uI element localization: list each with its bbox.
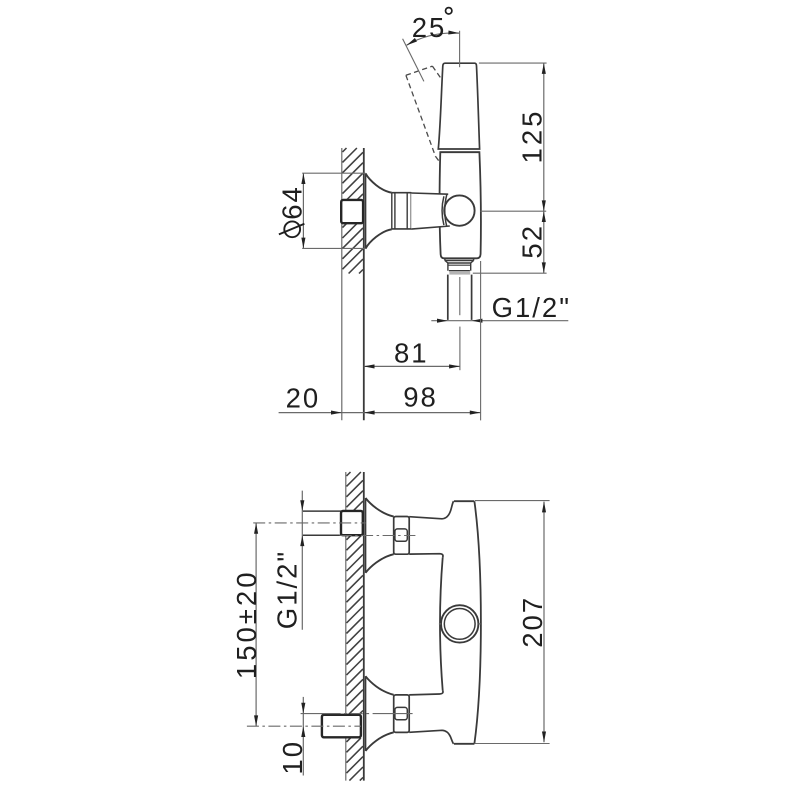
- upper connector cone: [409, 501, 453, 519]
- ext line handle top (125): [479, 62, 547, 64]
- lower supply pipe centre line: [247, 725, 361, 727]
- arrows 98: [364, 411, 375, 415]
- arrows dia 64: [301, 173, 305, 184]
- dimension line 10: [302, 697, 304, 776]
- svg-text:150±20: 150±20: [231, 570, 262, 680]
- arrows 125: [542, 63, 546, 74]
- outlet thread ring (grey): [449, 271, 470, 275]
- svg-text:98: 98: [403, 382, 438, 413]
- svg-text:G1/2": G1/2": [272, 550, 303, 629]
- escutcheon trumpet upper curve: [366, 173, 392, 192]
- escutcheon base disc: [365, 173, 367, 248]
- svg-text:125: 125: [517, 109, 548, 164]
- angle arc arrowheads: [407, 38, 417, 45]
- svg-text:64: 64: [277, 185, 308, 220]
- upper escutcheon base disc: [365, 498, 367, 573]
- label 207: [517, 596, 548, 648]
- svg-text:52: 52: [517, 224, 548, 259]
- svg-text:10: 10: [277, 740, 308, 775]
- ext line body bottom (207): [475, 743, 550, 745]
- svg-text:25: 25: [412, 12, 447, 43]
- outlet shoulder: [444, 258, 446, 260]
- handle tilted 25 deg (dashed): [406, 66, 433, 75]
- inlet nut behind wall (top figure): [341, 200, 363, 223]
- handle knob circle inner: [444, 609, 475, 640]
- ext line valve centre (125/52): [480, 210, 546, 212]
- lower inlet wall nut: [322, 715, 361, 738]
- upper inlet centre line: [340, 535, 416, 537]
- arrows 20: [331, 411, 342, 415]
- body bottom edge (front view): [454, 743, 475, 745]
- ext lines dia 64: [302, 172, 365, 174]
- valve cap circle (side view): [444, 195, 474, 225]
- connector cone to valve body: [411, 193, 450, 229]
- arrows 10: [301, 703, 305, 714]
- handle (upright, solid): [438, 63, 479, 149]
- angle extension line tilted: [403, 39, 424, 82]
- dimension line 81: [364, 365, 460, 367]
- wall section (top view) left edge: [341, 148, 343, 420]
- ext line body right (98): [480, 261, 482, 420]
- upper inlet supply pipe: [303, 510, 341, 512]
- arrows 52: [542, 211, 546, 222]
- arrows 207: [542, 502, 546, 513]
- label 10: [277, 740, 308, 775]
- arrows G1/2 (bottom figure): [300, 500, 304, 511]
- outlet pipe centre line: [459, 277, 461, 315]
- dimension line 207: [543, 502, 545, 743]
- wall hatching (top figure): [343, 148, 347, 152]
- dimension line G1/2 (top figure): [431, 320, 568, 322]
- wall hatching (bottom figure): [347, 472, 351, 476]
- mixer body (side view): [440, 152, 481, 258]
- label 150+-20: [231, 570, 262, 680]
- arrows G1/2 (top figure): [437, 319, 448, 323]
- upper supply pipe centre line: [253, 522, 365, 524]
- outlet nut: [445, 261, 474, 264]
- body left edge (front view): [440, 557, 443, 690]
- svg-text:207: 207: [517, 596, 548, 648]
- arrows 150+-20: [254, 523, 258, 534]
- svg-text:81: 81: [394, 338, 429, 369]
- lower inlet nut (front): [394, 695, 410, 733]
- arrows 81: [364, 364, 375, 368]
- dimension line 125/52: [543, 63, 545, 273]
- label dia 64: [277, 185, 308, 237]
- ext line outlet (52): [473, 272, 547, 274]
- body right edge (front view): [474, 501, 481, 744]
- label G1/2 (bottom figure): [272, 550, 303, 629]
- svg-text:G1/2": G1/2": [492, 292, 571, 323]
- dimension line 20/98: [279, 412, 481, 414]
- degree symbol: [446, 8, 452, 14]
- escutcheon collar: [392, 193, 411, 229]
- dimension line G1/2 (bottom figure): [301, 491, 303, 630]
- wall section (top view) face line: [363, 148, 365, 420]
- dimension line dia 64: [302, 173, 304, 248]
- lower inlet centre line: [301, 713, 416, 715]
- ext line outlet centre (81): [459, 327, 461, 371]
- svg-text:20: 20: [286, 382, 321, 413]
- upper inlet set screw square: [395, 529, 407, 541]
- lower escutcheon trumpet: [366, 676, 394, 695]
- escutcheon trumpet lower curve: [366, 229, 392, 248]
- handle/body joint line: [440, 151, 479, 153]
- label 52: [517, 224, 548, 259]
- label 125: [517, 109, 548, 164]
- wall section (front view) left edge: [345, 472, 347, 781]
- angle extension line vertical: [459, 31, 461, 67]
- knob centre ticks: [439, 623, 441, 625]
- upper inlet nut (front): [394, 517, 410, 555]
- ext line body top (207): [475, 500, 550, 502]
- handle knob circle outer: [441, 605, 478, 642]
- lower escutcheon base disc: [365, 676, 367, 751]
- lower inlet set screw square: [395, 707, 407, 719]
- cone-ball transition arcs: [442, 196, 444, 225]
- upper escutcheon trumpet: [366, 498, 394, 517]
- outlet pipe G1/2: [447, 275, 449, 320]
- dimension line 150+-20: [255, 523, 257, 726]
- lower connector cone: [409, 690, 443, 695]
- body top edge (front view): [454, 500, 475, 502]
- angle arc 25 deg: [407, 33, 460, 45]
- upper inlet wall nut: [341, 511, 363, 535]
- wall section (front view) face line: [363, 472, 365, 781]
